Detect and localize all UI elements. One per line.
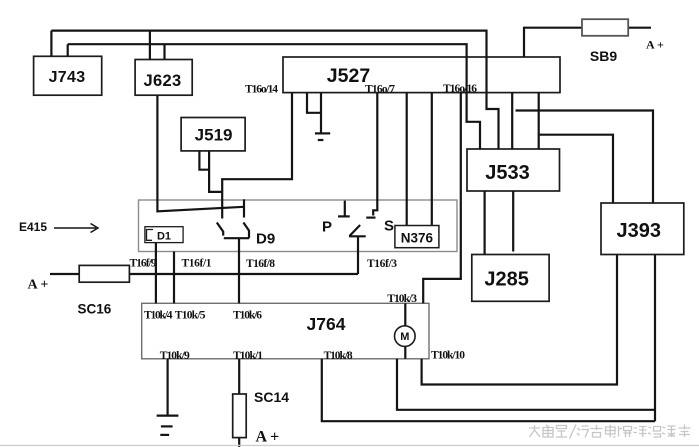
- svg-text:N376: N376: [401, 231, 434, 246]
- svg-text:A +: A +: [256, 429, 280, 446]
- svg-text:SB9: SB9: [590, 48, 617, 64]
- svg-text:T16o/16: T16o/16: [443, 83, 477, 95]
- svg-text:SC16: SC16: [78, 302, 112, 317]
- svg-text:P: P: [322, 219, 332, 236]
- svg-text:J533: J533: [485, 162, 530, 184]
- svg-text:J285: J285: [484, 269, 529, 291]
- svg-text:J393: J393: [617, 220, 662, 242]
- svg-text:T16o/7: T16o/7: [365, 84, 395, 96]
- svg-text:T16o/14: T16o/14: [245, 84, 278, 96]
- svg-text:T16f/9: T16f/9: [130, 258, 157, 270]
- svg-text:J764: J764: [307, 314, 346, 334]
- svg-text:T16f/1: T16f/1: [182, 258, 212, 270]
- svg-text:T10k/4: T10k/4: [144, 310, 173, 322]
- svg-text:T10k/1: T10k/1: [233, 350, 263, 362]
- svg-text:M: M: [400, 331, 409, 343]
- svg-text:T10k/8: T10k/8: [324, 350, 353, 362]
- svg-text:T10k/9: T10k/9: [160, 350, 190, 362]
- svg-text:T16f/8: T16f/8: [246, 258, 275, 270]
- svg-text:T10k/6: T10k/6: [233, 310, 262, 322]
- svg-text:J519: J519: [195, 126, 233, 145]
- svg-text:T16f/3: T16f/3: [367, 258, 397, 270]
- svg-text:S: S: [384, 218, 394, 235]
- svg-text:T10k/10: T10k/10: [431, 350, 465, 362]
- svg-text:D9: D9: [256, 231, 275, 248]
- svg-text:J527: J527: [327, 65, 370, 87]
- svg-text:A +: A +: [28, 278, 49, 293]
- svg-text:J743: J743: [49, 69, 86, 86]
- svg-text:T10k/5: T10k/5: [175, 310, 206, 322]
- svg-text:E415: E415: [19, 220, 47, 234]
- svg-text:SC14: SC14: [254, 389, 289, 405]
- svg-text:J623: J623: [144, 72, 182, 90]
- svg-text:T10k/3: T10k/3: [387, 293, 417, 305]
- svg-text:D1: D1: [157, 231, 171, 243]
- svg-text:A +: A +: [646, 38, 664, 52]
